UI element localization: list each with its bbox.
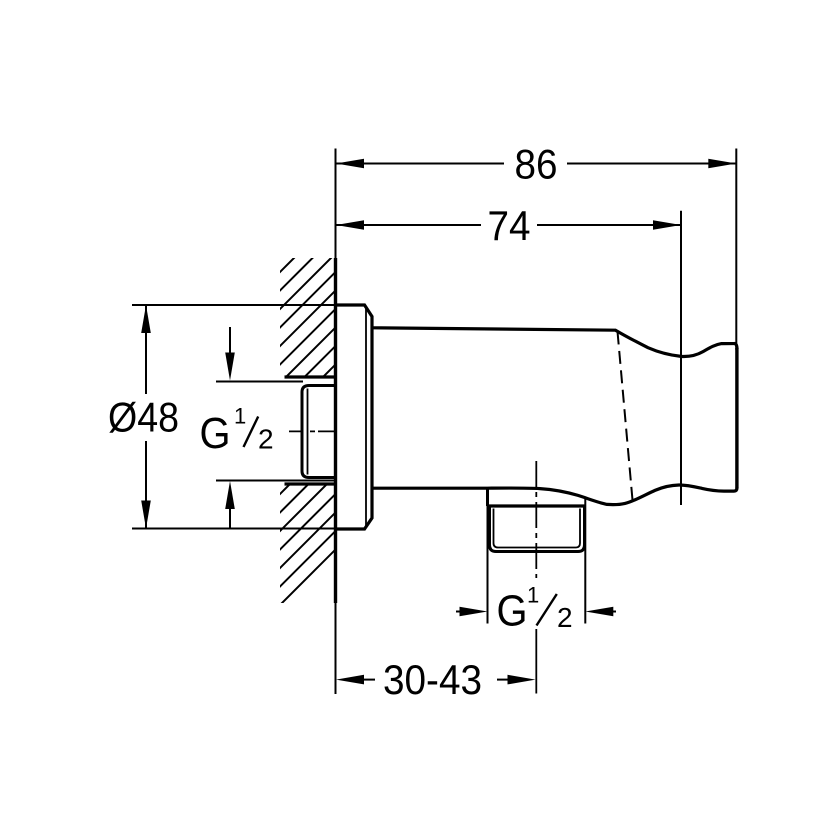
- svg-text:30-43: 30-43: [383, 656, 482, 703]
- dim 86 arrow right: [708, 159, 736, 169]
- svg-text:Ø48: Ø48: [108, 394, 179, 441]
- dim G12 bottom extension left: [487, 506, 489, 624]
- dim 86 arrow left: [336, 159, 364, 169]
- body bottom line and holder bottom profile: [373, 485, 737, 505]
- wall extension line (thin, full): [335, 149, 337, 695]
- dim D48 arrow bottom: [141, 501, 151, 529]
- dim 74 arrow left: [336, 220, 364, 230]
- svg-text:G: G: [200, 409, 231, 458]
- wall hatching: [0, 210, 675, 610]
- wall hole top edge: [285, 375, 338, 378]
- dim D48 line: [145, 305, 147, 529]
- flange (escutcheon) outline: [336, 305, 372, 529]
- dim 86 extension line right: [735, 149, 737, 351]
- dim G12 bottom arrow left: [456, 611, 462, 613]
- outlet nipple top edge: [488, 504, 586, 507]
- svg-text:74: 74: [488, 202, 531, 249]
- svg-text:2: 2: [557, 602, 573, 633]
- hidden cone dashed line: [618, 332, 633, 501]
- dim 30-43 arrow left: [364, 679, 375, 681]
- dim D48 extension top: [132, 304, 336, 306]
- dim G12 left extension top: [216, 381, 303, 383]
- dim D48 text: [104, 394, 183, 441]
- dim G12 bottom arrow right: [610, 611, 616, 613]
- outlet boss left edge: [486, 488, 489, 506]
- dim G12 left arrow bottom: [229, 499, 231, 528]
- wall surface line (thick): [334, 258, 337, 603]
- svg-text:86: 86: [515, 141, 558, 188]
- flange edge tangent line: [365, 308, 367, 527]
- holder right edge: [735, 348, 738, 489]
- dim G12 bottom extension right: [584, 497, 586, 624]
- dim D48 extension bottom: [132, 528, 336, 530]
- dim 86 line: [336, 163, 736, 165]
- dim G12 bottom label: [494, 578, 583, 628]
- svg-text:1: 1: [234, 404, 246, 429]
- dim 74 line: [336, 224, 681, 226]
- supply thread fitting G1/2 outline: [302, 386, 337, 478]
- outlet centerline: [535, 461, 537, 582]
- dim 86 text: [504, 146, 567, 181]
- svg-text:1: 1: [527, 583, 539, 608]
- dim 30-43 arrow right: [497, 679, 509, 681]
- dim G12 left arrow top: [229, 327, 231, 362]
- supply fitting centerline: [289, 430, 335, 432]
- dim 74 arrow right: [653, 220, 681, 230]
- dim 74 extension line right: [680, 211, 682, 505]
- dim D48 arrow top: [141, 305, 151, 333]
- outlet nipple thread lines: [494, 509, 581, 548]
- outlet nipple body: [490, 506, 585, 552]
- dim 74 text: [481, 207, 537, 242]
- svg-text:G: G: [497, 587, 528, 636]
- wall hole bottom edge: [285, 482, 338, 485]
- dim G12 left extension bottom: [216, 480, 336, 482]
- supply thread chamfer line: [307, 389, 309, 475]
- svg-text:2: 2: [258, 424, 274, 455]
- body top profile: [373, 328, 737, 357]
